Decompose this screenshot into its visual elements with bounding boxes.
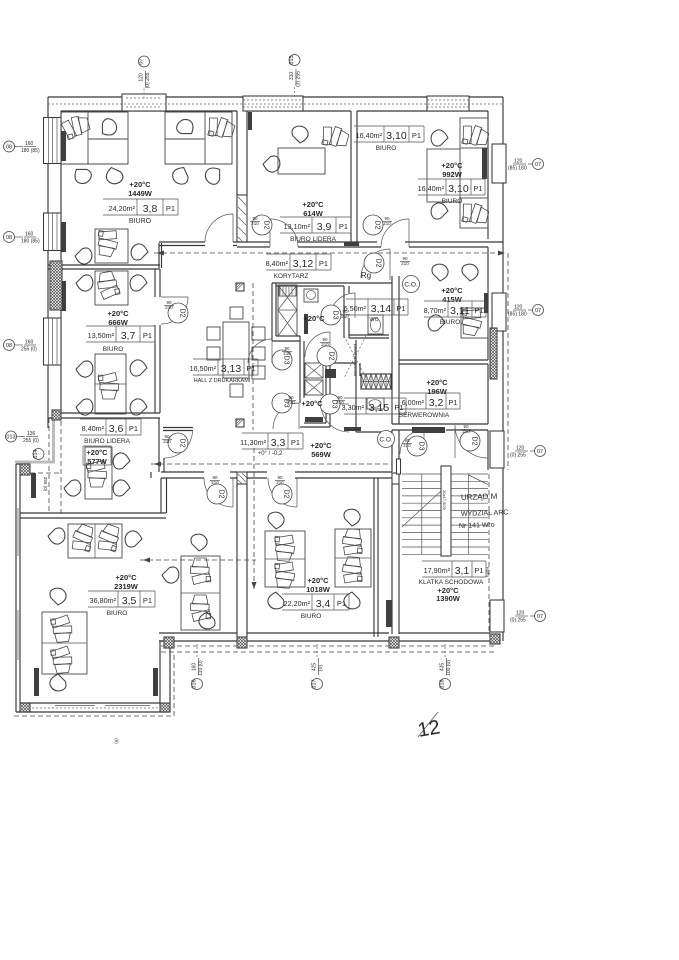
svg-text:8,40m²: 8,40m²	[266, 259, 289, 268]
svg-text:136: 136	[27, 431, 36, 437]
svg-text:07: 07	[535, 308, 541, 314]
svg-text:13,10m²: 13,10m²	[284, 222, 311, 231]
svg-text:3,10: 3,10	[448, 183, 469, 195]
svg-text:160: 160	[25, 340, 34, 346]
svg-text:(3) 255: (3) 255	[296, 71, 302, 87]
svg-text:07: 07	[139, 58, 145, 64]
svg-text:2319W: 2319W	[114, 582, 139, 591]
svg-text:3,7: 3,7	[121, 330, 136, 342]
svg-text:kaseta podtynkowa: kaseta podtynkowa	[353, 344, 357, 377]
svg-text:16,40m²: 16,40m²	[418, 184, 445, 193]
svg-text:16,50m²: 16,50m²	[190, 364, 217, 373]
svg-text:017: 017	[312, 679, 318, 688]
svg-text:(6): (6)	[114, 738, 119, 744]
svg-text:P1: P1	[166, 204, 175, 213]
svg-text:120: 120	[514, 305, 523, 311]
svg-text:SERWEROWNIA: SERWEROWNIA	[399, 412, 450, 419]
svg-text:3,2: 3,2	[429, 397, 444, 409]
svg-text:WC: WC	[369, 317, 378, 323]
svg-text:3,1: 3,1	[455, 565, 470, 577]
svg-text:310: 310	[289, 72, 295, 81]
svg-text:(85) 180: (85) 180	[508, 166, 527, 172]
svg-text:180 (85): 180 (85)	[21, 148, 40, 154]
svg-text:Rg: Rg	[361, 271, 371, 280]
svg-text:P1: P1	[474, 306, 483, 315]
svg-text:URZĄD M: URZĄD M	[461, 492, 498, 502]
svg-text:425: 425	[312, 663, 318, 672]
svg-text:016: 016	[192, 679, 198, 688]
svg-text:16,40m²: 16,40m²	[356, 131, 383, 140]
svg-text:D2: D2	[179, 439, 186, 448]
svg-text:P1: P1	[143, 596, 152, 605]
svg-text:C.O.: C.O.	[379, 437, 393, 444]
svg-text:3,11: 3,11	[450, 305, 470, 317]
svg-text:+20°C: +20°C	[441, 161, 463, 170]
svg-text:+0° / -0,2: +0° / -0,2	[258, 451, 283, 457]
svg-text:BIURO: BIURO	[107, 610, 128, 617]
svg-text:P1: P1	[319, 259, 328, 268]
svg-text:014: 014	[33, 449, 39, 458]
svg-text:160: 160	[25, 232, 34, 238]
svg-text:BIURO: BIURO	[103, 346, 124, 353]
svg-text:KLATKA SCHODOWA: KLATKA SCHODOWA	[419, 579, 484, 586]
svg-text:+20°C: +20°C	[107, 309, 129, 318]
svg-text:160: 160	[192, 663, 198, 672]
svg-text:D3: D3	[332, 311, 339, 320]
svg-text:P1: P1	[339, 222, 348, 231]
svg-text:415W: 415W	[442, 295, 463, 304]
svg-text:013: 013	[6, 435, 15, 441]
svg-text:992W: 992W	[442, 170, 463, 179]
svg-text:6,50m²: 6,50m²	[344, 304, 367, 313]
svg-text:07: 07	[537, 614, 543, 620]
svg-text:BIURO: BIURO	[301, 613, 322, 620]
svg-text:08: 08	[6, 145, 12, 151]
svg-text:015: 015	[289, 55, 295, 64]
svg-text:12: 12	[416, 716, 442, 742]
svg-text:3,8: 3,8	[143, 203, 158, 215]
svg-text:36,80m²: 36,80m²	[90, 596, 117, 605]
svg-text:018: 018	[440, 679, 446, 688]
svg-text:30x17,5/29: 30x17,5/29	[442, 490, 447, 511]
svg-text:P1: P1	[337, 599, 346, 608]
svg-text:(0) 255: (0) 255	[510, 618, 526, 624]
svg-text:08: 08	[6, 343, 12, 349]
svg-text:3,30m²: 3,30m²	[342, 403, 365, 412]
svg-text:3,6: 3,6	[109, 423, 124, 435]
svg-text:BIURO: BIURO	[129, 218, 152, 225]
svg-text:+20°C: +20°C	[426, 378, 448, 387]
svg-text:435: 435	[440, 663, 446, 672]
svg-text:+20°C: +20°C	[115, 573, 137, 582]
svg-text:(0): (0)	[318, 665, 324, 671]
svg-text:+20°C: +20°C	[86, 448, 108, 457]
svg-text:+20°C: +20°C	[310, 441, 332, 450]
svg-text:P1: P1	[448, 398, 457, 407]
svg-text:22,20m²: 22,20m²	[284, 599, 311, 608]
svg-text:P1: P1	[246, 364, 255, 373]
svg-text:D2: D2	[179, 309, 186, 318]
svg-text:1449W: 1449W	[128, 189, 153, 198]
svg-text:WYDZIAŁ ARC: WYDZIAŁ ARC	[461, 509, 509, 518]
svg-text:P1: P1	[473, 184, 482, 193]
svg-text:P1: P1	[412, 131, 421, 140]
svg-text:P1: P1	[291, 438, 300, 447]
svg-text:P1: P1	[129, 424, 138, 433]
svg-text:255 (0): 255 (0)	[23, 438, 39, 444]
svg-text:8,70m²: 8,70m²	[424, 306, 447, 315]
svg-text:BIURO LIDERA: BIURO LIDERA	[290, 236, 337, 243]
svg-text:+20°C: +20°C	[302, 200, 324, 209]
svg-text:3,9: 3,9	[317, 221, 332, 233]
svg-text:1018W: 1018W	[306, 585, 331, 594]
svg-text:120: 120	[514, 159, 523, 165]
svg-text:(0) 255: (0) 255	[145, 72, 151, 88]
svg-text:+20°C: +20°C	[303, 314, 325, 323]
svg-text:120: 120	[139, 73, 145, 82]
svg-text:D2: D2	[283, 490, 290, 499]
svg-text:110 (0): 110 (0)	[198, 660, 204, 676]
svg-text:3,12: 3,12	[293, 258, 314, 270]
svg-text:577W: 577W	[87, 457, 108, 466]
svg-text:+20°C: +20°C	[129, 180, 151, 189]
svg-text:3,10: 3,10	[386, 130, 407, 142]
svg-text:BIURO: BIURO	[376, 145, 397, 152]
svg-text:(0) 255: (0) 255	[510, 453, 526, 459]
svg-text:P1: P1	[396, 304, 405, 313]
svg-text:3,14: 3,14	[371, 303, 392, 315]
svg-text:F8/F5: F8/F5	[485, 567, 490, 578]
svg-text:255 (0): 255 (0)	[21, 347, 37, 353]
svg-text:3,5: 3,5	[122, 595, 137, 607]
svg-text:07: 07	[535, 162, 541, 168]
svg-text:3,3: 3,3	[271, 437, 286, 449]
svg-text:HALL Z DRUKARKAMI: HALL Z DRUKARKAMI	[194, 378, 251, 384]
svg-text:07: 07	[537, 449, 543, 455]
svg-text:1390W: 1390W	[436, 594, 461, 603]
svg-text:569W: 569W	[311, 450, 332, 459]
svg-text:120: 120	[516, 611, 525, 617]
svg-text:D2: D2	[375, 259, 382, 268]
svg-text:13,50m²: 13,50m²	[88, 331, 115, 340]
svg-text:08: 08	[6, 235, 12, 241]
svg-text:196W: 196W	[427, 387, 448, 396]
svg-text:24,20m²: 24,20m²	[109, 204, 136, 213]
svg-text:P1: P1	[143, 331, 152, 340]
svg-text:BIURO: BIURO	[440, 319, 461, 326]
svg-text:6,00m²: 6,00m²	[402, 398, 425, 407]
svg-text:BIURO LIDERA: BIURO LIDERA	[84, 438, 131, 445]
svg-text:+20°C: +20°C	[307, 576, 329, 585]
svg-text:BIURO: BIURO	[442, 198, 463, 205]
svg-text:17,90m²: 17,90m²	[424, 566, 451, 575]
svg-text:180 (85): 180 (85)	[21, 239, 40, 245]
svg-text:3,4: 3,4	[316, 598, 331, 610]
svg-text:D3: D3	[418, 442, 425, 451]
svg-text:D2: D2	[218, 490, 225, 499]
svg-text:Nr 141 Wro: Nr 141 Wro	[459, 522, 495, 530]
svg-text:160: 160	[25, 141, 34, 147]
svg-text:D2: D2	[328, 352, 335, 361]
svg-text:D2: D2	[263, 221, 270, 230]
svg-text:3,13: 3,13	[221, 363, 242, 375]
svg-text:255 (0): 255 (0)	[43, 477, 48, 492]
svg-text:120: 120	[516, 446, 525, 452]
svg-text:D2: D2	[374, 221, 381, 230]
svg-text:D3: D3	[283, 356, 290, 365]
svg-text:D2: D2	[471, 437, 478, 446]
svg-text:C.O.: C.O.	[404, 282, 418, 289]
svg-text:KORYTARZ: KORYTARZ	[274, 273, 309, 280]
svg-text:+20°C: +20°C	[301, 399, 323, 408]
svg-text:8,40m²: 8,40m²	[82, 424, 105, 433]
svg-text:100 (0): 100 (0)	[446, 660, 452, 676]
svg-text:(85) 180: (85) 180	[508, 312, 527, 318]
svg-text:3,15: 3,15	[369, 402, 390, 414]
svg-text:+20°C: +20°C	[441, 286, 463, 295]
svg-text:P1: P1	[474, 566, 483, 575]
svg-text:11,30m²: 11,30m²	[240, 438, 266, 447]
